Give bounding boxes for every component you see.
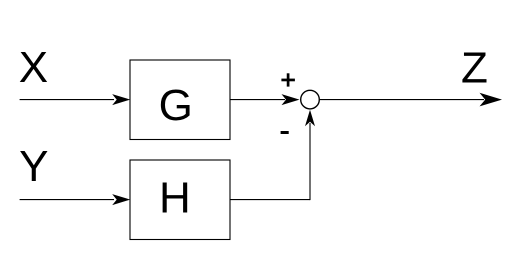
minus sign	[281, 131, 289, 134]
output arrowhead	[480, 93, 503, 107]
block H	[130, 160, 230, 240]
plus sign	[281, 73, 295, 86]
wire G to summer	[230, 99, 285, 101]
svg-text:Y: Y	[19, 142, 48, 191]
svg-text:Z: Z	[461, 43, 488, 92]
summing junction	[301, 90, 320, 109]
wire H to elbow horizontal	[230, 199, 310, 201]
arrowhead into G	[112, 94, 130, 105]
wire X input	[20, 99, 114, 101]
wire summer to output	[320, 99, 484, 101]
wire elbow up to summer vertical	[309, 123, 311, 200]
arrowhead into summer left	[282, 94, 300, 105]
svg-text:H: H	[159, 173, 191, 222]
svg-text:G: G	[159, 81, 193, 130]
arrowhead into summer bottom	[305, 110, 315, 127]
arrowhead into H	[112, 194, 130, 205]
wire Y input	[20, 199, 114, 201]
block G	[130, 60, 230, 140]
svg-text:X: X	[19, 43, 48, 92]
